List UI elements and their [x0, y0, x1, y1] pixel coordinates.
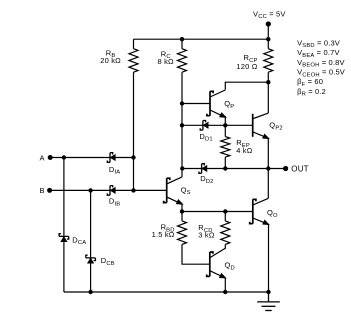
wire: REP bottom stub	[224, 157, 226, 168]
node QP base junction	[180, 101, 184, 105]
svg-text:1.5 kΩ: 1.5 kΩ	[152, 230, 175, 239]
transistor QS	[164, 177, 183, 204]
wire: QO collector column to OUT	[267, 169, 269, 199]
svg-text:B: B	[40, 186, 45, 195]
wire: RCD bottom to QD collector	[224, 244, 226, 248]
svg-text:8 kΩ: 8 kΩ	[158, 57, 175, 66]
diode DCB	[86, 255, 96, 263]
wire: top supply rail	[134, 38, 269, 40]
diode DIA	[107, 153, 115, 163]
wire: QS collector stub	[181, 169, 183, 177]
wire: ground rail left corner	[64, 291, 91, 293]
node DCB ground junction	[88, 290, 92, 294]
wire: DCA column	[63, 158, 65, 293]
wire: ground rail	[91, 291, 269, 293]
svg-text:QO: QO	[267, 208, 278, 219]
diode DCA	[59, 234, 69, 242]
node QS collector junction	[180, 166, 184, 170]
node REP bottom junction	[223, 166, 227, 170]
wire: OUT line	[182, 168, 285, 170]
transistor QO	[250, 198, 269, 224]
wire: RBD bottom to QD base	[182, 244, 210, 264]
diode DD1	[200, 121, 208, 131]
diode DIB	[107, 186, 115, 196]
transistor QP	[207, 90, 226, 117]
svg-text:DD1: DD1	[199, 132, 212, 143]
node REP top junction	[223, 123, 227, 127]
svg-text:QD: QD	[225, 261, 235, 272]
wire: QP emitter column to REP top node	[224, 116, 226, 125]
resistor RB	[129, 49, 138, 72]
svg-text:DIA: DIA	[109, 165, 120, 176]
svg-text:QP: QP	[224, 99, 234, 110]
wire: RCD top stub	[224, 212, 226, 221]
node QD emitter ground junction	[223, 290, 227, 294]
node DD1 left junction	[180, 123, 184, 127]
resistor RC	[178, 49, 187, 72]
wire: RB column top stub	[133, 39, 135, 49]
wire: RCP top stub	[267, 39, 269, 49]
resistor RBD	[178, 221, 187, 245]
node ground junction	[266, 290, 270, 294]
svg-text:120 Ω: 120 Ω	[236, 62, 257, 71]
svg-text:QP2: QP2	[269, 121, 282, 132]
node OUT terminal	[283, 166, 288, 171]
wire: RC column top stub	[181, 39, 183, 49]
ground	[257, 292, 280, 311]
svg-text:VCC = 5V: VCC = 5V	[253, 9, 286, 20]
wire: DD1 line	[182, 124, 225, 126]
node A terminal dot	[48, 155, 53, 160]
wire: RBD top stub	[181, 212, 183, 221]
transistor QD	[207, 248, 226, 278]
node rail-RC junction	[180, 37, 184, 41]
wire: RC column down to QS collector node	[181, 72, 183, 168]
wire: QP base lead	[182, 103, 210, 105]
svg-text:4 kΩ: 4 kΩ	[236, 146, 253, 155]
diode DD2	[199, 164, 207, 174]
wire: REP top stub	[224, 125, 226, 136]
wire: input B line	[50, 189, 167, 191]
svg-text:A: A	[40, 153, 45, 162]
node A line / RB column junction	[131, 155, 135, 159]
node OUT column junction	[266, 166, 270, 170]
transistor QP2	[253, 113, 269, 139]
wire: QS emitter row to QO base	[182, 211, 253, 213]
svg-text:QS: QS	[181, 185, 191, 196]
svg-text:βR = 0.2: βR = 0.2	[297, 87, 326, 98]
svg-text:3 kΩ: 3 kΩ	[198, 230, 215, 239]
wire: VCC stub	[267, 24, 269, 39]
wire: QP collector to RCP node	[225, 82, 268, 90]
wire: QD emitter column	[224, 278, 226, 292]
wire: input A line	[50, 157, 133, 159]
wire: QS emitter stub	[181, 204, 183, 211]
node QS emitter junction	[180, 209, 184, 213]
svg-text:DCB: DCB	[101, 256, 115, 267]
svg-text:20 kΩ: 20 kΩ	[100, 56, 121, 65]
wire: RB column bottom	[133, 72, 135, 190]
resistor RCP	[264, 49, 273, 72]
wire: DCB column	[90, 190, 92, 292]
node B line / RB column junction	[131, 188, 135, 192]
wire: QP2 emitter column to OUT	[267, 138, 269, 169]
resistor REP	[221, 137, 230, 158]
node RCP bottom junction	[266, 80, 270, 84]
node RCD top junction	[223, 209, 227, 213]
svg-text:OUT: OUT	[291, 165, 308, 174]
svg-text:DIB: DIB	[109, 197, 120, 208]
resistor RCD	[221, 221, 230, 245]
wire: QO emitter column	[268, 224, 270, 292]
svg-text:DCA: DCA	[72, 235, 86, 246]
node B terminal dot	[47, 188, 52, 193]
node B-DCB junction	[88, 188, 92, 192]
node A-DCA junction	[62, 155, 66, 159]
wire: RCP bottom to QP/QP2 collector node	[267, 72, 269, 113]
node VCC terminal	[266, 21, 271, 26]
svg-text:DD2: DD2	[200, 174, 213, 185]
wire: QP2 base lead	[225, 124, 252, 126]
node rail-RCP junction	[266, 37, 270, 41]
